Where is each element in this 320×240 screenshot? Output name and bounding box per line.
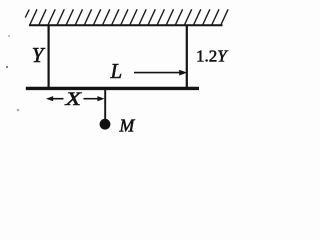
bar <box>26 87 199 90</box>
string <box>104 90 106 121</box>
svg-text:L: L <box>110 59 123 83</box>
mass circle <box>100 119 111 130</box>
X right arrow <box>84 96 105 101</box>
svg-text:X: X <box>64 89 83 110</box>
svg-text:M: M <box>119 116 136 136</box>
X left arrow <box>46 96 64 101</box>
speck artifacts <box>6 66 8 68</box>
L arrow <box>134 70 187 76</box>
ceiling line <box>29 24 223 26</box>
left wire <box>47 25 49 89</box>
svg-text:1.2Y: 1.2Y <box>196 46 228 65</box>
right wire <box>186 25 188 89</box>
ceiling hatching <box>25 9 228 25</box>
